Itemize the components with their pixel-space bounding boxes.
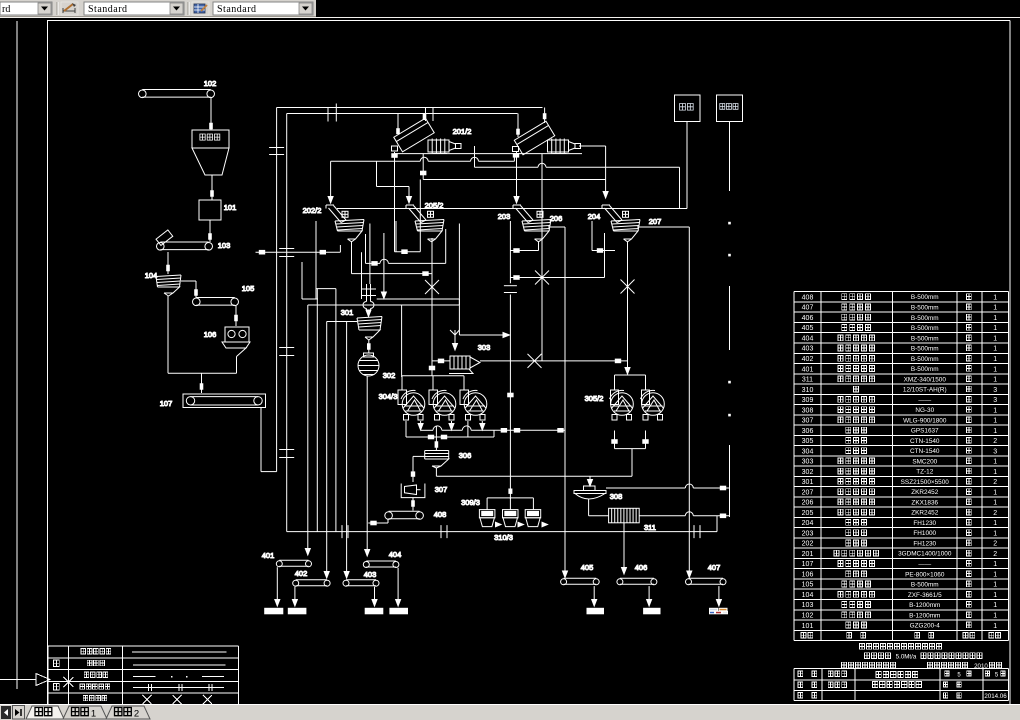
wire pump A outlet down <box>421 154 606 180</box>
svg-text:1: 1 <box>993 623 997 630</box>
wire to desliming screen 306 <box>435 437 438 450</box>
wire dilute media down arrow <box>381 233 386 299</box>
gangue dump marker <box>710 608 728 614</box>
belt 402 <box>293 569 330 586</box>
wire circulating water dash-dot line <box>729 122 731 518</box>
wire screen A recirculation loop <box>256 221 362 299</box>
svg-text:1: 1 <box>993 418 997 425</box>
svg-text:1: 1 <box>993 561 997 568</box>
pumps 310/3 outlet arrows <box>496 522 548 527</box>
svg-text:310: 310 <box>802 387 814 394</box>
svg-text:104: 104 <box>802 592 814 599</box>
wire pump A nose line <box>475 146 680 209</box>
wire line7 <box>395 180 421 254</box>
svg-text:204: 204 <box>588 212 601 221</box>
svg-text:3: 3 <box>993 397 997 404</box>
heavy media cyclone 201/2 unit A <box>392 118 435 157</box>
svg-text:3: 3 <box>993 387 997 394</box>
wire 306 to centrifuge 307 <box>411 456 424 482</box>
screen assembly B <box>406 205 444 242</box>
wire cyclone U1 feed pipes <box>423 108 433 122</box>
svg-text:105: 105 <box>242 284 255 293</box>
wire screen B loop <box>396 221 459 335</box>
svg-text:309/3: 309/3 <box>461 498 480 507</box>
screen assembly D <box>602 205 640 242</box>
svg-text:B-500mm: B-500mm <box>911 315 939 322</box>
svg-text:311: 311 <box>802 377 813 384</box>
svg-text:307: 307 <box>435 485 448 494</box>
wire screen B underflow with X to media bus <box>425 238 450 376</box>
svg-text:102: 102 <box>802 612 814 619</box>
screen assembly A <box>326 205 364 242</box>
svg-text:408: 408 <box>434 510 447 519</box>
svg-text:2010: 2010 <box>974 663 988 670</box>
svg-text:1: 1 <box>993 592 997 599</box>
svg-text:204: 204 <box>802 520 814 527</box>
svg-text:Standard: Standard <box>217 4 257 15</box>
vibrating screen 301 <box>341 308 382 340</box>
svg-text:301: 301 <box>802 479 814 486</box>
wire media return bus <box>287 525 717 538</box>
svg-text:1: 1 <box>993 530 997 537</box>
svg-text:2: 2 <box>993 438 997 445</box>
svg-text:102: 102 <box>204 79 217 88</box>
svg-text:301: 301 <box>341 308 354 317</box>
svg-text:1: 1 <box>993 335 997 342</box>
belt conveyor 103 <box>156 230 230 250</box>
wire junction stubs on feed bus <box>328 104 336 122</box>
legend table <box>48 646 238 704</box>
svg-text:Standard: Standard <box>88 4 128 15</box>
svg-text:1: 1 <box>993 356 997 363</box>
svg-text:FH1230: FH1230 <box>913 540 936 547</box>
svg-text:309: 309 <box>802 397 814 404</box>
wire funnel line <box>459 333 509 338</box>
heavy media cyclone 201/2 unit B <box>513 121 555 157</box>
svg-text:1: 1 <box>993 459 997 466</box>
svg-text:101: 101 <box>802 623 814 630</box>
svg-text:1: 1 <box>993 377 997 384</box>
sheet exit arrow left <box>0 674 50 686</box>
svg-text:1: 1 <box>993 489 997 496</box>
wire to settling cone 308 <box>588 476 593 486</box>
slime thickener 303 <box>449 330 490 374</box>
svg-text:405: 405 <box>581 563 594 572</box>
svg-text:403: 403 <box>802 346 814 353</box>
wire to belt 402 <box>324 322 329 579</box>
wire cyclone U1 underflow <box>394 152 396 252</box>
svg-text:ZKR2452: ZKR2452 <box>911 510 938 517</box>
svg-text:1: 1 <box>993 520 997 527</box>
wire screens C D dilute media line with X <box>504 221 605 499</box>
wire 305 collection <box>612 431 648 477</box>
wire middlings line to belt 405 <box>563 227 568 578</box>
wire screen D loop <box>592 221 615 278</box>
desliming screen 306 <box>425 451 472 469</box>
wire pump axis line <box>395 153 583 155</box>
equipment list table <box>794 292 1009 641</box>
svg-text:304: 304 <box>802 448 814 455</box>
wire to belt 403 <box>327 322 357 579</box>
feeder 101 <box>199 200 236 220</box>
sprinklers <box>342 211 629 217</box>
svg-text:106: 106 <box>802 571 814 578</box>
svg-text:107: 107 <box>160 399 173 408</box>
wire 308 to filter press 311 <box>589 500 609 516</box>
svg-text:407: 407 <box>708 563 721 572</box>
crusher 106 <box>204 327 250 357</box>
svg-text:107: 107 <box>802 561 814 568</box>
svg-text:401: 401 <box>802 366 814 373</box>
svg-text:1: 1 <box>993 366 997 373</box>
svg-text:402: 402 <box>802 356 814 363</box>
svg-text:406: 406 <box>802 315 814 322</box>
svg-text:1: 1 <box>993 346 997 353</box>
belt 407 <box>686 563 727 585</box>
svg-text:ZKR2452: ZKR2452 <box>911 489 938 496</box>
svg-text:TZ-12: TZ-12 <box>916 469 933 476</box>
svg-text:XMZ-340/1500: XMZ-340/1500 <box>904 376 947 383</box>
transfer belt 408 <box>385 510 446 519</box>
clear water box <box>675 95 701 122</box>
wire 301 to centrifuge 302 <box>368 340 371 353</box>
wire bunker to feeder 101 <box>211 175 214 200</box>
svg-text:307: 307 <box>802 418 814 425</box>
svg-text:WLG-900/1800: WLG-900/1800 <box>903 417 947 424</box>
secondary cyclone unit B <box>548 139 581 154</box>
centrifuge 307 <box>401 484 447 498</box>
svg-text:203: 203 <box>802 530 814 537</box>
belt 401 <box>262 551 312 567</box>
wire 301 feed <box>361 224 376 317</box>
svg-text:205/2: 205/2 <box>425 201 444 210</box>
svg-text:302: 302 <box>383 371 396 380</box>
svg-text:201: 201 <box>802 551 814 558</box>
label 205/2 <box>425 201 444 210</box>
settling cone 308 <box>574 486 622 501</box>
centrifuge 302 <box>358 353 395 380</box>
wire 308 overflow to circulating water <box>606 484 730 490</box>
wire loop returns <box>316 289 336 532</box>
magnetic separator 305 unit 2 <box>641 375 665 420</box>
svg-text:2: 2 <box>993 510 997 517</box>
belt conveyor 102 <box>139 79 217 98</box>
wire screen C loop <box>510 242 538 253</box>
svg-text:308: 308 <box>610 492 623 501</box>
svg-text:B-1200mm: B-1200mm <box>909 602 940 609</box>
svg-text:FH1000: FH1000 <box>913 530 936 537</box>
wire spray line <box>337 208 687 210</box>
filter press 311 <box>609 508 656 532</box>
belt 403 <box>343 570 379 586</box>
raw coal bunker <box>192 130 229 175</box>
svg-text:SMC200: SMC200 <box>912 458 937 465</box>
magnetic separator 305 unit 1 <box>610 375 634 420</box>
wire media bus 1 <box>377 299 460 305</box>
svg-text:1: 1 <box>993 325 997 332</box>
svg-text:B-500mm: B-500mm <box>911 356 939 363</box>
svg-text:302: 302 <box>802 469 814 476</box>
svg-text:404: 404 <box>389 550 402 559</box>
svg-text:2: 2 <box>993 551 997 558</box>
svg-text:B-500mm: B-500mm <box>911 294 939 301</box>
svg-text:105: 105 <box>802 582 814 589</box>
svg-text:B-500mm: B-500mm <box>911 335 939 342</box>
scraper conveyor 107 <box>160 394 266 408</box>
svg-text:B-500mm: B-500mm <box>911 582 939 589</box>
wire screen D underflow with X to 305 <box>615 242 646 375</box>
wire 311 filtrate to circulating water <box>639 512 729 532</box>
svg-text:B-500mm: B-500mm <box>911 366 939 373</box>
svg-text:1: 1 <box>993 500 997 507</box>
svg-text:401: 401 <box>262 551 275 560</box>
wire to belt 401 <box>305 305 310 555</box>
svg-text:GZG200-4: GZG200-4 <box>910 623 941 630</box>
belt 406 <box>617 563 657 585</box>
svg-text:1: 1 <box>993 315 997 322</box>
svg-text:ZXF-3661/5: ZXF-3661/5 <box>908 592 942 599</box>
wire cyclone U2 underflow feed screen 203 <box>514 152 519 203</box>
wire 106 and 104 underflow to 107 <box>168 296 237 394</box>
wire 104 to belt 105 <box>181 281 197 298</box>
svg-text:PE-800×1060: PE-800×1060 <box>905 571 945 578</box>
wire 304 tailings collection <box>406 421 494 439</box>
svg-text:——: —— <box>918 561 931 568</box>
title block <box>794 644 1009 701</box>
screen assembly C <box>513 205 551 242</box>
label 207 <box>649 217 662 226</box>
svg-text:B-500mm: B-500mm <box>911 325 939 332</box>
wire 311 to belt 406 <box>622 523 627 574</box>
svg-text:205: 205 <box>802 510 814 517</box>
svg-text:308: 308 <box>802 407 814 414</box>
svg-text:2014.06: 2014.06 <box>984 693 1007 700</box>
svg-text:305: 305 <box>802 438 814 445</box>
label 310/3 <box>494 533 513 542</box>
svg-text:304/3: 304/3 <box>379 392 398 401</box>
belt 404 <box>363 550 401 568</box>
product bins <box>265 608 660 614</box>
svg-text:404: 404 <box>802 335 814 342</box>
svg-text:GPS1637: GPS1637 <box>911 428 939 435</box>
wire cyclone U1 overflow <box>397 114 400 134</box>
svg-text:1: 1 <box>993 428 997 435</box>
label 201/2 <box>453 127 472 136</box>
svg-text:206: 206 <box>550 214 563 223</box>
svg-text:101: 101 <box>224 203 237 212</box>
label 309/3 <box>461 498 480 507</box>
svg-text:SSZ21500×5500: SSZ21500×5500 <box>901 479 950 486</box>
svg-text:305/2: 305/2 <box>585 394 604 403</box>
svg-text:2: 2 <box>134 709 139 720</box>
label 304/3 <box>379 392 398 401</box>
svg-text:B-500mm: B-500mm <box>911 346 939 353</box>
wire cyclone U2 down line with X <box>535 154 549 361</box>
media tank 309 unit 2 <box>503 510 519 527</box>
svg-text:403: 403 <box>364 570 377 579</box>
svg-text:NG-30: NG-30 <box>915 407 934 414</box>
magnetic separator 304 unit 1 <box>398 376 425 420</box>
belt conveyor 105 <box>193 284 255 306</box>
svg-text:104: 104 <box>145 271 158 280</box>
wire 102 to raw coal bunker <box>210 98 213 130</box>
svg-text:408: 408 <box>802 294 814 301</box>
svg-text:3: 3 <box>993 448 997 455</box>
wire 101 to belt 103 <box>209 220 212 242</box>
svg-text:——: —— <box>918 397 931 404</box>
svg-text:306: 306 <box>802 428 814 435</box>
belt discharge wires <box>275 567 722 606</box>
wire screen D right to gangue line <box>637 226 689 228</box>
svg-text:B-500mm: B-500mm <box>911 304 939 311</box>
svg-text:203: 203 <box>498 212 511 221</box>
wire media line6 <box>366 234 446 265</box>
svg-text:206: 206 <box>802 500 814 507</box>
svg-text:1: 1 <box>993 294 997 301</box>
belt 405 <box>561 563 600 585</box>
wire screen A underflow to junction <box>352 242 433 276</box>
svg-text:303: 303 <box>802 459 814 466</box>
svg-text:1: 1 <box>993 612 997 619</box>
svg-text:207: 207 <box>802 489 814 496</box>
media tank 309 unit 3 <box>525 510 541 527</box>
svg-text:1: 1 <box>993 305 997 312</box>
label 206 <box>550 214 563 223</box>
svg-text:106: 106 <box>204 330 217 339</box>
wire 306 underflow header <box>436 468 632 476</box>
svg-text:1: 1 <box>993 469 997 476</box>
wire 304 feed header <box>402 305 464 377</box>
wire 304 concentrate collection <box>418 421 565 432</box>
svg-text:103: 103 <box>218 241 231 250</box>
svg-text:5.0Mt/a: 5.0Mt/a <box>896 654 917 661</box>
circulating water box <box>717 95 743 122</box>
magnetic separator 304 unit 3 <box>460 376 487 420</box>
wire 307 to belt 408 <box>412 498 415 511</box>
label 203 <box>498 212 511 221</box>
svg-text:ZKX1836: ZKX1836 <box>911 499 938 506</box>
svg-text:306: 306 <box>459 451 472 460</box>
wire media return line4 <box>331 154 515 161</box>
svg-text:202/2: 202/2 <box>303 206 322 215</box>
svg-text:FH1230: FH1230 <box>913 520 936 527</box>
label 305/2 <box>585 394 604 403</box>
label 202/2 <box>303 206 322 215</box>
wire feed screen 202/2 <box>328 161 333 203</box>
svg-text:1: 1 <box>993 571 997 578</box>
svg-text:3GDMC1400/1000: 3GDMC1400/1000 <box>898 551 952 558</box>
svg-text:303: 303 <box>478 343 491 352</box>
svg-text:2: 2 <box>993 541 997 548</box>
svg-text:1: 1 <box>91 709 96 720</box>
wire media bus 2 <box>308 304 460 306</box>
svg-text:B-1200mm: B-1200mm <box>909 612 940 619</box>
magnetic separator 304 unit 2 <box>429 376 456 420</box>
svg-text:2: 2 <box>993 479 997 486</box>
svg-text:402: 402 <box>295 569 308 578</box>
wire secondary U2 outlet feed screen 204 <box>579 146 608 198</box>
label 204 <box>588 212 601 221</box>
svg-text:405: 405 <box>802 325 814 332</box>
svg-text:1: 1 <box>993 407 997 414</box>
svg-text:CTN-1540: CTN-1540 <box>910 448 940 455</box>
svg-text:310/3: 310/3 <box>494 533 513 542</box>
wire 302 to belt 404 <box>365 376 370 556</box>
wire 107 to cyclone feed riser <box>261 108 284 472</box>
wire screen C right to middlings line <box>548 226 565 228</box>
wire feed screen 205/2 <box>377 161 412 203</box>
svg-text:12/10ST-AH(R): 12/10ST-AH(R) <box>903 387 947 394</box>
svg-text:103: 103 <box>802 602 814 609</box>
wire tank distribution <box>487 498 533 510</box>
svg-text:202: 202 <box>802 541 814 548</box>
layout tab bar <box>0 704 1020 720</box>
vibrating screen 104 <box>145 271 181 296</box>
wire 103 to screen 104 <box>167 252 170 274</box>
svg-text:201/2: 201/2 <box>453 127 472 136</box>
toolbar <box>0 0 1020 18</box>
wire top feed bus <box>277 108 543 532</box>
media tank 309 unit 1 <box>479 510 495 527</box>
wire 105 to crusher 106 <box>235 306 238 326</box>
svg-text:311: 311 <box>644 523 656 532</box>
wire gangue line to belt 407 <box>687 227 692 578</box>
svg-text:406: 406 <box>635 563 648 572</box>
svg-text:CTN-1540: CTN-1540 <box>910 438 940 445</box>
svg-text:rd: rd <box>2 4 10 15</box>
wire cyclone U2 feed <box>517 108 546 138</box>
wire clear water down to spray line <box>686 122 688 209</box>
svg-text:407: 407 <box>802 305 814 312</box>
svg-text:207: 207 <box>649 217 662 226</box>
svg-text:1: 1 <box>993 602 997 609</box>
wire 303 overflow with X <box>480 354 628 368</box>
svg-text:1: 1 <box>993 582 997 589</box>
wire 408 discharge to 404 line <box>368 519 388 525</box>
secondary cyclone unit A <box>428 139 461 154</box>
